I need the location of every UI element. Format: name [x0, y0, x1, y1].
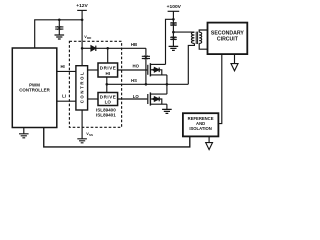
svg-text:HI: HI [106, 71, 111, 76]
HO label [132, 64, 139, 69]
arrow output of secondary circuit [234, 54, 236, 64]
ground at Q2 source [162, 109, 172, 113]
dashed IC boundary ISL89400 [69, 41, 121, 127]
PWM controller box [12, 48, 57, 128]
svg-text:HS: HS [131, 78, 137, 83]
LO label [133, 94, 140, 99]
svg-text:ISL89401: ISL89401 [96, 113, 116, 118]
+100V supply terminal [168, 10, 180, 12]
control block U1a [76, 66, 88, 110]
capacitor C1 (VDD bypass) [55, 20, 63, 35]
bootstrap diode D1 [82, 47, 91, 49]
node junction HB to DRIVE HI [106, 47, 109, 50]
VDD label [84, 35, 92, 40]
reference and isolation box [183, 113, 219, 136]
wire primary bottom to HS node [188, 43, 194, 84]
wire PWM bottom to return rail [44, 128, 190, 147]
wire LO to Q2 gate [118, 98, 148, 100]
node junction VDD to diode [81, 47, 84, 50]
wire HB to DRIVE HI top [107, 48, 109, 63]
drive hi block [98, 63, 118, 77]
wire cap midpoint to transformer primary [173, 31, 193, 33]
svg-text:DD: DD [87, 36, 92, 40]
wire secondary top to secondary circuit [199, 30, 207, 32]
HB label [131, 42, 137, 47]
svg-text:+100V: +100V [167, 4, 182, 10]
wire secondary bottom to secondary circuit [199, 43, 207, 49]
transistor Q2 low-side NMOS [147, 94, 149, 104]
wire HO to Q1 gate [118, 69, 148, 71]
svg-text:LI: LI [62, 94, 66, 99]
wire VSS [81, 110, 83, 139]
part number labels [96, 108, 116, 118]
svg-text:DRIVE: DRIVE [100, 65, 116, 70]
wire DRIVE HI bottom to HS net and DRIVE LO top [106, 77, 108, 93]
wire HB net [96, 47, 146, 49]
svg-text:HB: HB [131, 42, 137, 47]
svg-text:DRIVE: DRIVE [100, 94, 116, 99]
wire Q1 drain to +100V branch [166, 19, 174, 64]
HS label [131, 78, 137, 83]
ground under C1 [55, 35, 65, 39]
svg-text:LO: LO [133, 94, 140, 99]
transformer core [196, 32, 197, 44]
svg-text:CONTROLLER: CONTROLLER [19, 88, 50, 93]
wire secondary circuit to reference block [218, 54, 221, 124]
drive lo block [98, 93, 118, 106]
svg-text:PWM: PWM [29, 82, 40, 87]
LI label [62, 94, 66, 99]
transistor Q1 high-side NMOS [147, 65, 149, 75]
wire HI pin [57, 70, 76, 72]
capacitor C4 [170, 37, 177, 39]
wire CONTROL to DRIVE HI [88, 69, 98, 71]
ground under PWM box [23, 128, 25, 134]
wire LI pin [57, 100, 76, 102]
wire Q2 source to ground [166, 104, 168, 109]
wire HS net [107, 83, 189, 85]
node junction at C1 tap [58, 19, 61, 22]
svg-text:HI: HI [60, 64, 64, 69]
wire CONTROL to DRIVE LO [88, 98, 98, 100]
wire VDD riser [81, 10, 83, 65]
VSS label [86, 132, 93, 137]
wire Q1 source / Q2 drain to HS [166, 75, 168, 94]
HI label [60, 64, 64, 69]
+12V supply terminal [77, 9, 87, 11]
svg-text:SS: SS [89, 133, 93, 137]
svg-text:ISOLATION: ISOLATION [189, 126, 212, 131]
node junction cap midpoint [172, 31, 175, 34]
arrow output of reference block [208, 136, 210, 142]
transformer T1 secondary winding [199, 32, 202, 43]
svg-text:CONTROL: CONTROL [79, 72, 84, 103]
secondary circuit box [208, 23, 248, 54]
bootstrap capacitor C2 [142, 48, 150, 84]
capacitor C3 [170, 23, 177, 25]
ground VSS [77, 139, 87, 143]
wire cap midpoint to primary top (tail) [193, 31, 195, 33]
svg-text:+12V: +12V [76, 3, 88, 9]
node junction at VDD riser [81, 19, 84, 22]
svg-text:HO: HO [132, 64, 139, 69]
svg-text:LO: LO [105, 100, 112, 105]
wire +100V bus [172, 11, 174, 46]
ground under C4 [169, 46, 179, 50]
svg-text:CIRCUIT: CIRCUIT [217, 36, 239, 42]
transformer T1 primary winding [191, 32, 194, 43]
wire PWM top to +12V rail [35, 20, 82, 48]
